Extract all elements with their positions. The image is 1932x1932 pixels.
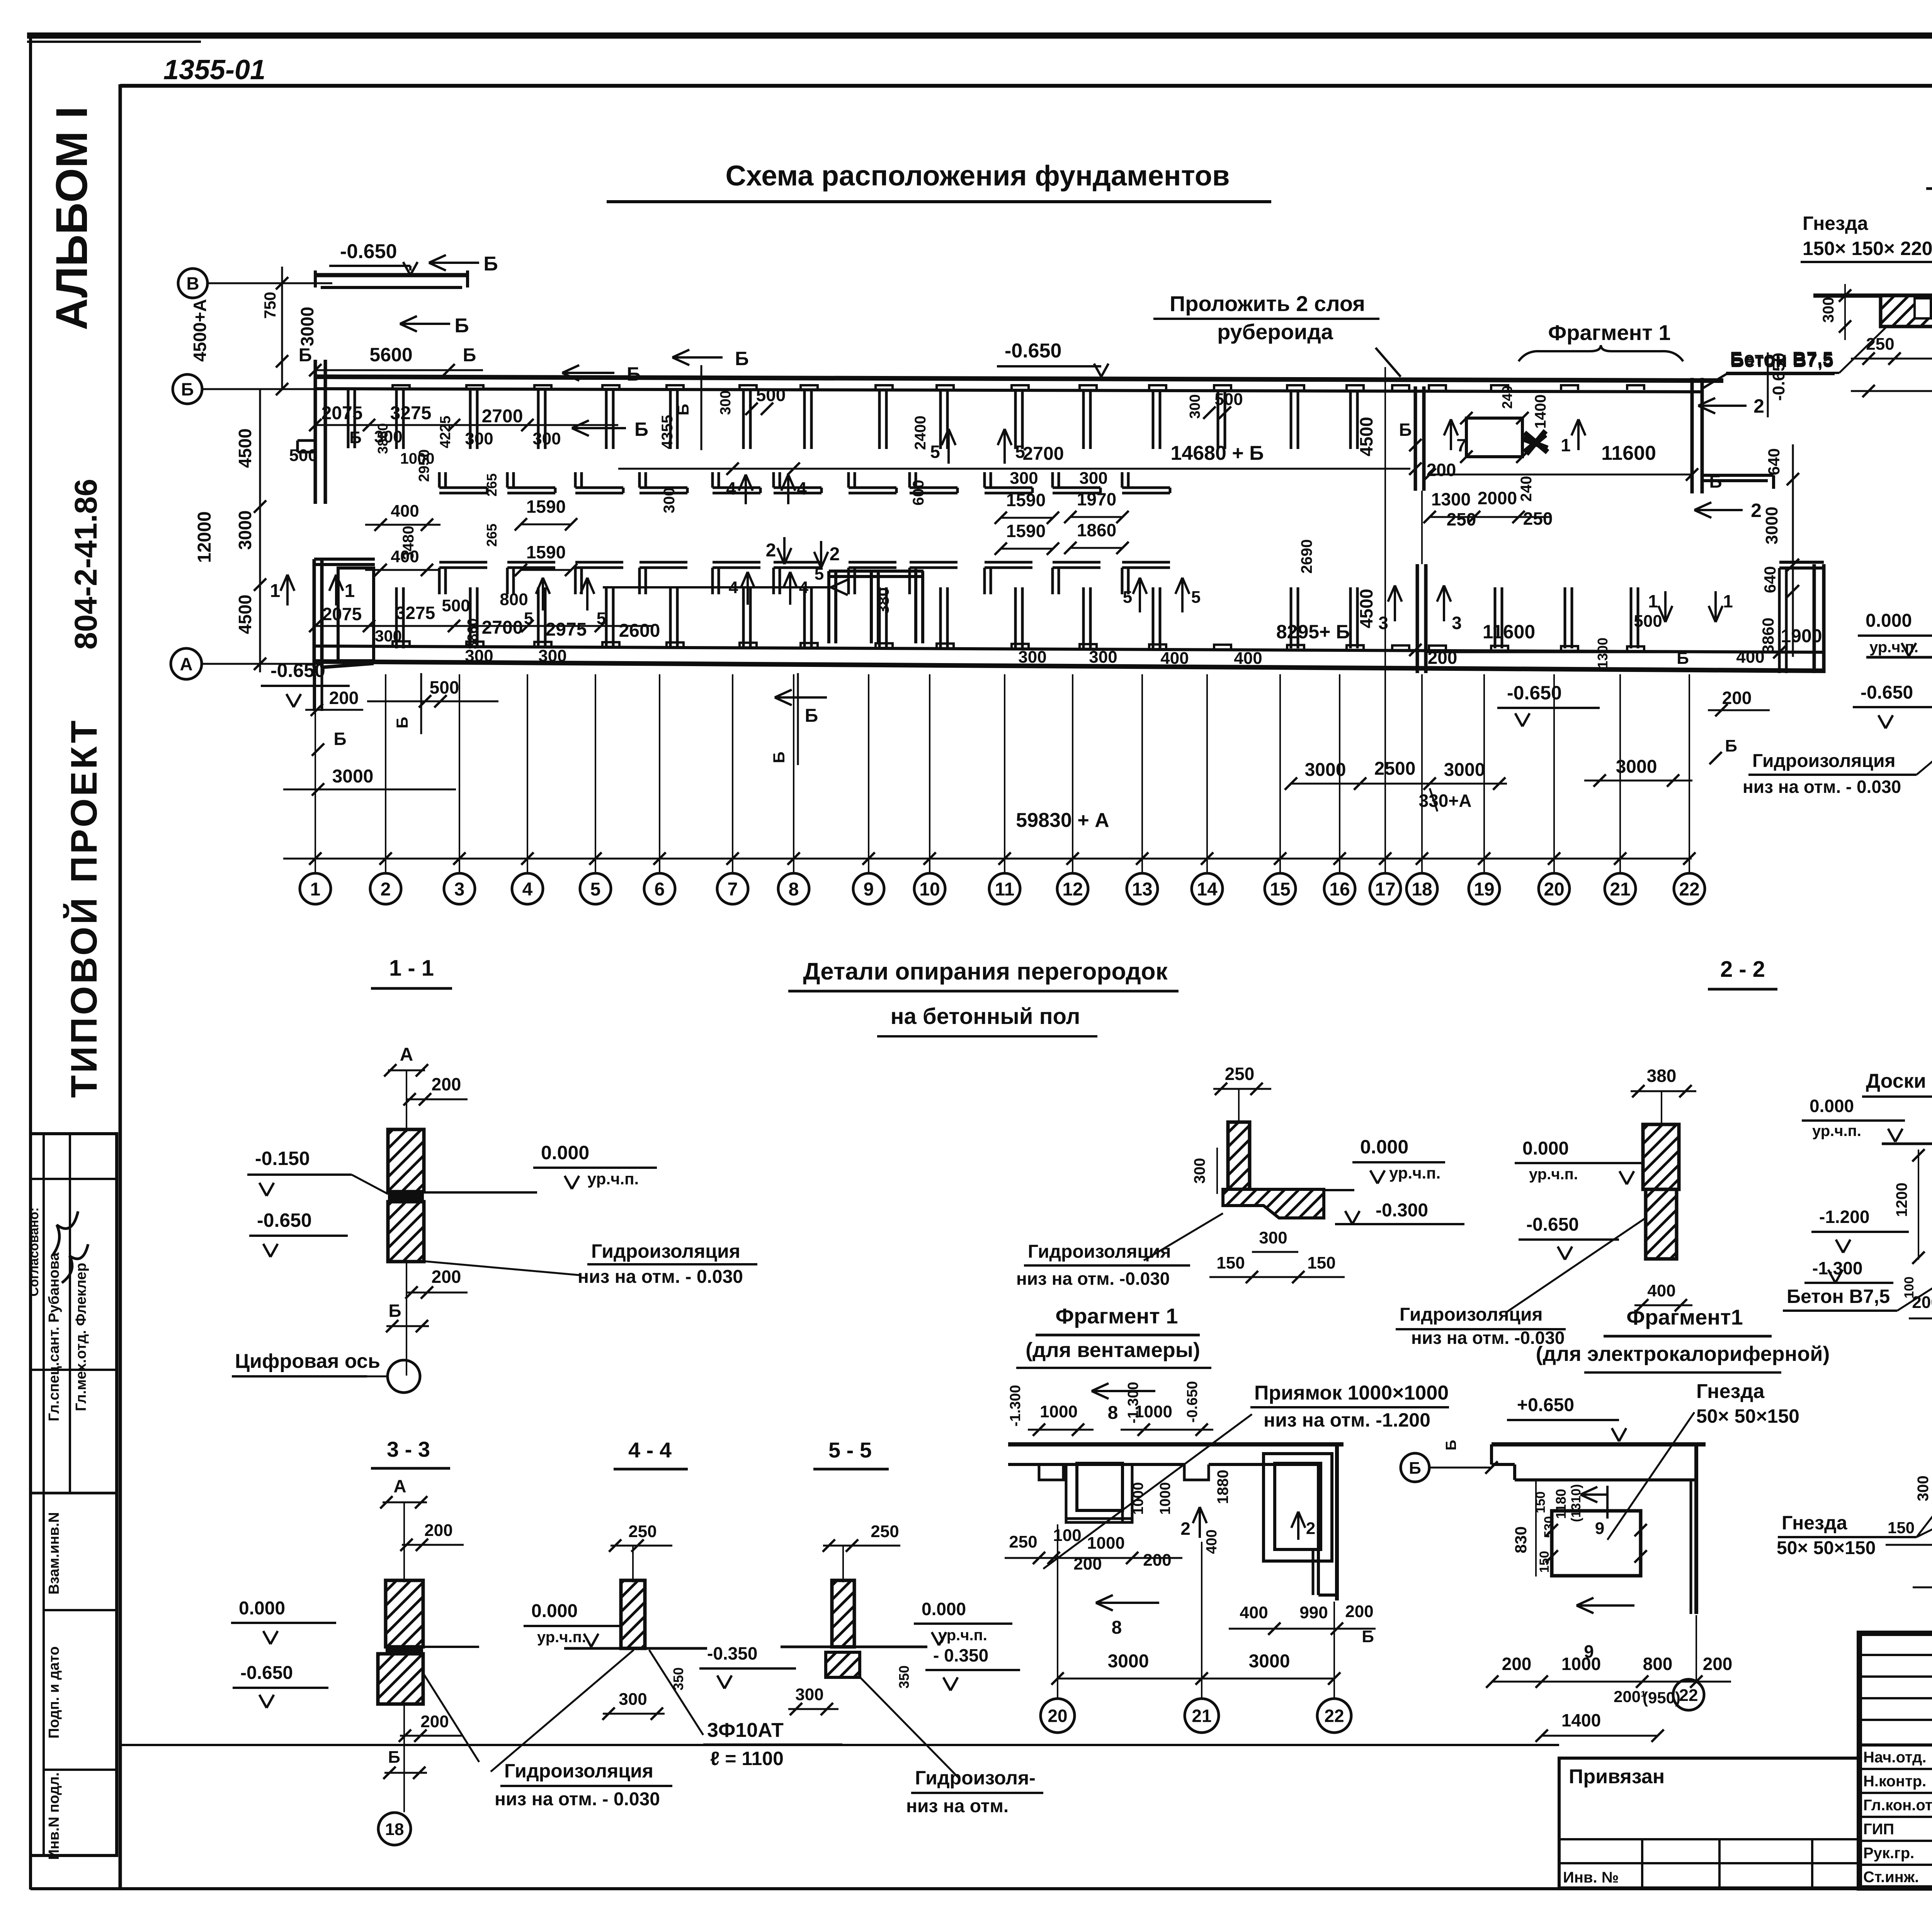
section arrows 7 and 1 at fragment [1450,419,1452,450]
svg-text:300: 300 [1089,648,1117,667]
svg-text:12000: 12000 [194,511,215,563]
svg-text:380: 380 [1647,1066,1677,1086]
svg-text:3000: 3000 [1616,757,1657,777]
section 4-4 hydro label [491,1650,634,1772]
svg-text:200: 200 [329,688,359,708]
svg-text:Приямок 1000×1000: Приямок 1000×1000 [1254,1382,1449,1404]
svg-text:240: 240 [1518,476,1535,502]
svg-text:(для электрокалориферной): (для электрокалориферной) [1536,1342,1830,1366]
svg-text:Б: Б [627,363,641,385]
svg-text:-0.650: -0.650 [257,1209,312,1231]
svg-text:Б: Б [333,729,346,749]
svg-text:50× 50×150: 50× 50×150 [1696,1405,1799,1427]
svg-text:2400: 2400 [912,416,929,450]
right end bottom wall [1813,564,1816,673]
sheet bottom rule [31,1887,1932,1890]
axis circle А [171,648,202,679]
svg-text:400: 400 [391,502,419,520]
svg-text:1970: 1970 [1077,489,1116,509]
svg-text:500: 500 [430,677,459,697]
svg-text:8: 8 [789,879,799,900]
svg-text:1: 1 [1648,591,1658,611]
svg-text:300: 300 [1191,1158,1208,1184]
svg-text:5600: 5600 [369,344,412,366]
svg-text:17: 17 [1375,879,1395,900]
left lower-left room block [313,559,316,667]
svg-text:4: 4 [726,478,736,498]
svg-text:Цифровая ось: Цифровая ось [235,1350,380,1372]
svg-text:20: 20 [1544,879,1564,900]
svg-text:4500: 4500 [235,595,255,634]
section 5-5 hydro label [860,1677,958,1777]
svg-text:250: 250 [1009,1532,1037,1551]
stamp blank row lines [1859,1654,1932,1656]
svg-text:-0.650: -0.650 [1005,340,1061,362]
svg-text:200: 200 [1502,1654,1532,1674]
svg-text:300: 300 [532,429,561,448]
svg-text:0.000: 0.000 [922,1599,966,1619]
svg-text:Гидроизоляция: Гидроизоляция [1400,1304,1543,1325]
svg-text:3000: 3000 [1762,507,1781,544]
svg-text:200: 200 [1912,1293,1932,1312]
svg-text:+0.650: +0.650 [1517,1395,1574,1415]
svg-text:Б: Б [1725,736,1737,755]
svg-text:990: 990 [1299,1603,1328,1622]
svg-text:ур.ч.п.: ур.ч.п. [1529,1166,1578,1183]
svg-text:300: 300 [1187,394,1203,418]
section 2-2 column [1228,1122,1250,1189]
svg-text:7: 7 [1456,435,1466,455]
svg-text:400: 400 [1647,1281,1675,1300]
svg-text:3: 3 [1452,613,1462,633]
svg-text:800: 800 [1643,1654,1673,1674]
axis circle 18 below 3-3 [378,1813,411,1845]
svg-text:59830 + А: 59830 + А [1016,809,1109,832]
svg-text:2700: 2700 [482,617,523,638]
svg-text:50× 50×150: 50× 50×150 [1777,1538,1876,1558]
svg-text:8: 8 [1112,1617,1122,1638]
svg-text:21: 21 [1610,879,1630,900]
svg-text:1: 1 [345,581,355,601]
svg-text:Гидроизоляция: Гидроизоляция [1028,1242,1171,1262]
svg-text:2 - 2: 2 - 2 [1720,957,1765,982]
left end upper inner partition [347,390,350,448]
svg-text:Гл.мех.отд. Флеклер: Гл.мех.отд. Флеклер [73,1263,89,1411]
svg-text:5 - 5: 5 - 5 [828,1438,872,1462]
svg-text:500: 500 [756,385,786,405]
svg-text:16: 16 [1329,879,1350,900]
section 380-column [1643,1124,1679,1189]
svg-text:1000: 1000 [1157,1482,1173,1515]
svg-text:Б: Б [634,418,648,440]
svg-text:Доски δ = 40мм: Доски δ = 40мм [1866,1070,1932,1092]
svg-text:1 - 1: 1 - 1 [389,956,434,981]
svg-text:Б: Б [388,1748,400,1767]
svg-text:9: 9 [1595,1519,1604,1538]
bottom partition stubs [395,587,398,648]
sheet outer top border [27,32,1932,39]
svg-text:640: 640 [1765,448,1783,475]
svg-text:250: 250 [1523,509,1553,529]
svg-text:Гл.кон.от.: Гл.кон.от. [1863,1797,1932,1814]
svg-text:Рук.гр.: Рук.гр. [1863,1845,1914,1862]
svg-text:Гидроизоляция: Гидроизоляция [1752,751,1895,771]
svg-text:4: 4 [522,879,533,900]
svg-text:Инв.N подл.: Инв.N подл. [46,1772,62,1860]
section 7-7 dims 250 2000 250 2500 [1851,358,1932,360]
svg-text:ТИПОВОЙ ПРОЕКТ: ТИПОВОЙ ПРОЕКТ [63,718,105,1098]
svg-text:-0.150: -0.150 [255,1148,310,1169]
svg-text:250: 250 [1225,1064,1255,1084]
svg-text:300: 300 [465,646,493,665]
svg-text:Б: Б [388,1301,401,1321]
svg-text:ур.ч.п.: ур.ч.п. [938,1627,987,1644]
svg-text:380: 380 [874,587,892,614]
svg-text:3480: 3480 [400,526,417,560]
fragment vent arrow 2 [1199,1507,1201,1538]
svg-text:В: В [186,274,199,294]
svg-text:1590: 1590 [1006,490,1046,510]
svg-text:- 0.350: - 0.350 [933,1645,988,1665]
svg-text:3000: 3000 [297,307,317,346]
svg-text:-0.650: -0.650 [1526,1214,1579,1235]
bottom foundation wall band [315,646,1824,652]
svg-text:22: 22 [1679,1686,1698,1705]
svg-text:150: 150 [1888,1519,1915,1537]
svg-text:14: 14 [1197,879,1218,900]
svg-text:200: 200 [432,1074,461,1094]
svg-text:830: 830 [1512,1526,1530,1553]
svg-text:500: 500 [289,446,317,465]
svg-text:22: 22 [1324,1706,1344,1726]
section Б-Б ground lines [1866,656,1932,659]
svg-text:Б: Б [463,345,476,366]
svg-text:-1.300: -1.300 [1125,1382,1141,1423]
svg-text:250: 250 [871,1522,899,1541]
section 5-5 ground [781,1646,927,1648]
svg-text:1000: 1000 [400,450,435,467]
section 5-5 column [832,1580,854,1647]
svg-text:А: А [400,1044,413,1065]
axis-18 wall upper [1414,386,1417,491]
axis circle В [178,269,207,298]
svg-text:ур.ч.п.: ур.ч.п. [537,1629,586,1646]
svg-text:А: А [180,654,192,674]
svg-text:3000: 3000 [1108,1651,1149,1672]
svg-text:4355: 4355 [659,415,676,449]
svg-text:3275: 3275 [390,403,432,423]
svg-text:804-2-41.86: 804-2-41.86 [68,479,104,650]
svg-text:4500: 4500 [235,429,255,468]
svg-text:(1310): (1310) [1569,1484,1583,1522]
svg-text:2075: 2075 [321,403,363,423]
svg-text:12: 12 [1062,879,1083,900]
svg-text:300: 300 [1010,469,1038,488]
svg-text:530: 530 [1542,1516,1556,1538]
svg-text:400: 400 [1160,649,1189,668]
svg-text:5: 5 [590,879,601,900]
svg-text:5: 5 [1015,442,1025,462]
svg-text:Взам.инв.N: Взам.инв.N [46,1512,62,1594]
svg-text:4: 4 [797,478,807,498]
svg-text:Б: Б [1677,649,1689,668]
sheet outer left border [29,32,32,1889]
fragment vent right room [1275,1463,1321,1549]
fragment vent arrows 8 [1092,1390,1155,1392]
svg-text:Подп. и дато: Подп. и дато [46,1646,62,1739]
fragment pit rectangle in plan [1466,418,1522,457]
svg-text:2600: 2600 [619,621,660,641]
svg-text:Фрагмент1: Фрагмент1 [1626,1305,1743,1329]
svg-text:Инв. №: Инв. № [1563,1869,1619,1886]
svg-text:2: 2 [1753,395,1764,417]
right end L to the east [1702,474,1774,477]
svg-text:4500+А: 4500+А [190,299,210,362]
section Б marks below band [775,696,827,699]
svg-text:2: 2 [1751,500,1762,521]
svg-text:Фрагмент 1: Фрагмент 1 [1548,320,1671,345]
svg-text:0.000: 0.000 [1866,611,1912,631]
svg-text:7: 7 [728,879,738,900]
svg-text:Н.контр.: Н.контр. [1863,1773,1926,1790]
dim row lower 2075 3275 2700 2975 2600 [315,625,653,627]
svg-text:Гидроизоляция: Гидроизоляция [504,1760,653,1782]
svg-text:400: 400 [1736,648,1764,667]
svg-text:1: 1 [1561,435,1571,455]
svg-text:11600: 11600 [1601,442,1656,464]
svg-text:0.000: 0.000 [1522,1138,1569,1159]
svg-text:низ на отм. -1.200: низ на отм. -1.200 [1264,1409,1430,1431]
stamp outer frame [1859,1633,1932,1888]
svg-text:0.000: 0.000 [239,1598,285,1619]
svg-text:300: 300 [1018,648,1046,667]
svg-text:300: 300 [1915,1476,1932,1502]
svg-text:11: 11 [995,879,1015,900]
svg-text:300: 300 [538,646,566,665]
svg-text:3: 3 [454,879,465,900]
fragment vent outline [1008,1442,1344,1447]
stamp header row line [1859,1743,1932,1747]
section marks 5 lower rows [1139,578,1141,612]
svg-text:1000: 1000 [1087,1534,1125,1553]
section marks 4 arrows upper [745,474,747,504]
svg-text:200: 200 [1427,460,1456,480]
svg-text:3275: 3275 [396,603,435,623]
svg-text:250: 250 [628,1522,656,1541]
sheet inner frame left [119,84,122,1889]
section mark Б below lintel [400,323,450,325]
svg-text:низ на отм. - 0.030: низ на отм. - 0.030 [495,1789,660,1810]
section mark Б top near axis6 [672,356,723,359]
svg-text:Б: Б [349,428,362,447]
svg-text:рубероида: рубероида [1217,320,1333,344]
svg-text:2000: 2000 [1478,488,1517,508]
svg-text:150: 150 [1537,1551,1552,1573]
left small protrusion [298,439,315,442]
svg-text:ур.ч.п.: ур.ч.п. [1389,1164,1440,1182]
svg-text:Б: Б [735,348,749,369]
section 3-3 hydro leader [423,1673,479,1762]
svg-text:ур.ч.п.: ур.ч.п. [587,1170,639,1188]
sheet inner frame top [120,84,1932,88]
svg-text:5: 5 [815,565,824,583]
svg-text:Гидроизоляция: Гидроизоляция [591,1240,740,1262]
svg-text:200: 200 [432,1267,461,1287]
svg-text:3 - 3: 3 - 3 [387,1437,430,1461]
axis circle Б [173,374,202,404]
section Б-Б hydro label [1917,730,1932,775]
svg-text:Фрагмент 1: Фрагмент 1 [1056,1304,1178,1328]
section arrows 1 left end [286,575,289,605]
svg-text:2: 2 [1180,1519,1190,1539]
svg-text:Детали опирания перегородок: Детали опирания перегородок [803,958,1168,985]
svg-text:200: 200 [424,1521,452,1540]
axis circles 1-22 [300,873,331,904]
svg-text:330+А: 330+А [1419,791,1472,811]
section 4-4 column [621,1580,645,1648]
top band notches [393,385,410,390]
svg-text:2: 2 [381,879,391,900]
section 380 hydro label [1507,1217,1647,1312]
svg-text:240: 240 [1499,386,1515,409]
small rooms lower middle [829,570,923,573]
svg-text:1900: 1900 [1781,626,1822,646]
top partition stubs [395,390,398,449]
section 7-7 slab [1813,294,1932,298]
svg-text:Бетон В7,5: Бетон В7,5 [1787,1286,1890,1307]
svg-text:20: 20 [1048,1706,1067,1726]
svg-text:ℓ = 1100: ℓ = 1100 [710,1748,784,1769]
svg-text:Б: Б [483,253,498,275]
svg-text:500: 500 [442,596,470,615]
svg-text:Схема расположения фундамент: Схема расположения фундаментов [725,160,1230,192]
svg-text:9: 9 [864,879,874,900]
svg-text:19: 19 [1474,879,1494,900]
svg-text:Б: Б [1409,1459,1421,1478]
section marks 3 at axis 17-18 lower [1394,585,1396,621]
svg-text:400: 400 [1204,1529,1220,1554]
svg-text:350: 350 [896,1665,912,1689]
svg-text:-0.300: -0.300 [1376,1200,1428,1221]
fragment elektro section 9 arrows [1606,1486,1609,1519]
svg-text:1000: 1000 [1561,1654,1601,1674]
fragment elektro axis 22 circle [1673,1679,1704,1710]
svg-text:200: 200 [420,1712,449,1731]
svg-text:6: 6 [655,879,665,900]
svg-text:2700: 2700 [1023,444,1064,464]
svg-text:Б: Б [454,315,469,337]
svg-text:-0.650: -0.650 [340,240,397,263]
top foundation wall band [315,377,1723,381]
svg-text:-1.300: -1.300 [1812,1258,1862,1278]
svg-text:200: 200 [1143,1551,1171,1570]
svg-text:2700: 2700 [482,406,523,427]
svg-text:1180: 1180 [1553,1489,1569,1519]
svg-text:3000: 3000 [1249,1651,1290,1672]
svg-text:4: 4 [729,578,738,597]
right sub dim 3000 [1584,780,1692,782]
svg-text:Нач.отд.: Нач.отд. [1863,1749,1926,1766]
svg-text:3: 3 [1378,613,1388,633]
section mark Б above lintel [429,262,479,264]
svg-text:Б: Б [181,379,194,400]
svg-text:18: 18 [385,1820,404,1839]
section marks Б mid plan [562,372,614,374]
svg-text:1300: 1300 [1595,638,1611,668]
svg-text:2: 2 [830,544,840,565]
svg-text:640: 640 [1761,566,1779,593]
svg-text:5: 5 [930,442,940,462]
svg-text:1355-01: 1355-01 [163,54,265,85]
svg-text:8: 8 [1108,1403,1118,1423]
axis drop lines [315,674,316,872]
axis-18 wall lower [1416,564,1419,673]
svg-text:0.000: 0.000 [541,1142,589,1163]
svg-text:300: 300 [1820,297,1837,323]
svg-text:1590: 1590 [1006,521,1046,541]
svg-text:300: 300 [375,627,402,645]
svg-text:1300: 1300 [1431,489,1471,509]
section marks 1 down near axis20 [1664,591,1667,622]
svg-text:18: 18 [1412,879,1432,900]
section marks 4 lower [747,572,749,605]
sidebar attribute table box [31,1134,117,1855]
svg-text:2075: 2075 [322,604,362,624]
svg-text:Гнезда: Гнезда [1803,213,1869,234]
svg-text:11600: 11600 [1483,621,1535,643]
svg-text:300: 300 [718,390,734,415]
svg-text:300: 300 [1259,1228,1287,1247]
svg-text:750: 750 [261,292,279,319]
svg-text:0.000: 0.000 [1360,1136,1408,1158]
upper row L partitions [438,472,441,488]
svg-text:1590: 1590 [526,497,566,517]
section 2-2 hydro label [1144,1213,1223,1260]
svg-text:200: 200 [1345,1602,1373,1621]
svg-text:ур.ч.п.: ур.ч.п. [1869,639,1918,656]
svg-text:0.000: 0.000 [531,1601,578,1621]
svg-text:500: 500 [1214,390,1243,409]
svg-text:150× 150× 220: 150× 150× 220 [1803,238,1932,259]
svg-text:Бетон В7,5: Бетон В7,5 [1730,348,1833,369]
svg-text:400: 400 [1234,649,1262,668]
svg-text:250: 250 [1866,335,1894,354]
svg-text:-0.650: -0.650 [1861,682,1913,703]
svg-text:1590: 1590 [526,542,566,562]
svg-text:5: 5 [1191,588,1201,607]
arrows 2 into small rooms [783,537,786,564]
sidebar signature scribble [52,1211,78,1256]
svg-text:150: 150 [1307,1253,1335,1272]
svg-text:-0.650: -0.650 [1184,1381,1201,1423]
svg-text:Б: Б [674,404,692,415]
svg-text:Б: Б [1443,1440,1459,1450]
section marks 5 arrows upper [947,429,950,464]
dim row 2075 3275 2700 upper [315,424,618,426]
right end wall upper [1690,378,1694,493]
svg-text:низ на отм.: низ на отм. [906,1796,1009,1816]
svg-text:1000: 1000 [1130,1482,1146,1515]
left dim chain upper [281,267,283,390]
svg-text:400: 400 [1240,1603,1268,1622]
section marks 2 right end [1698,405,1747,407]
left end wall upper [314,360,317,504]
svg-text:200: 200 [1703,1654,1733,1674]
section 3-3 column [386,1580,423,1647]
svg-text:3860: 3860 [464,618,480,649]
svg-text:13: 13 [1132,879,1152,900]
svg-text:2: 2 [766,540,776,561]
